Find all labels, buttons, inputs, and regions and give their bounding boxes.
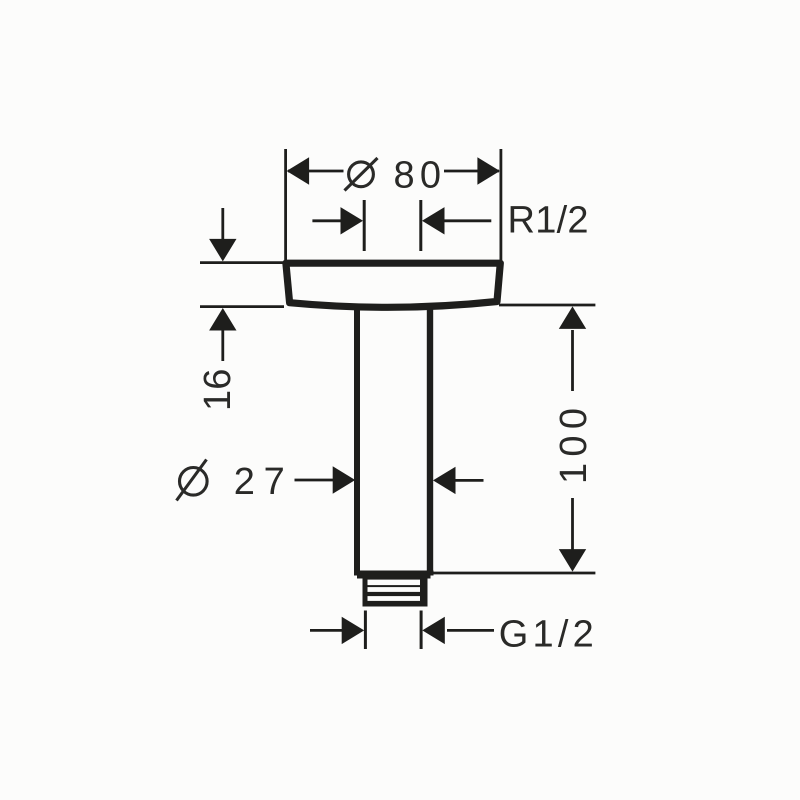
svg-text:G1/2: G1/2: [499, 614, 594, 656]
svg-text:R1/2: R1/2: [508, 200, 589, 242]
svg-text:100: 100: [553, 408, 595, 484]
svg-text:16: 16: [197, 369, 239, 411]
